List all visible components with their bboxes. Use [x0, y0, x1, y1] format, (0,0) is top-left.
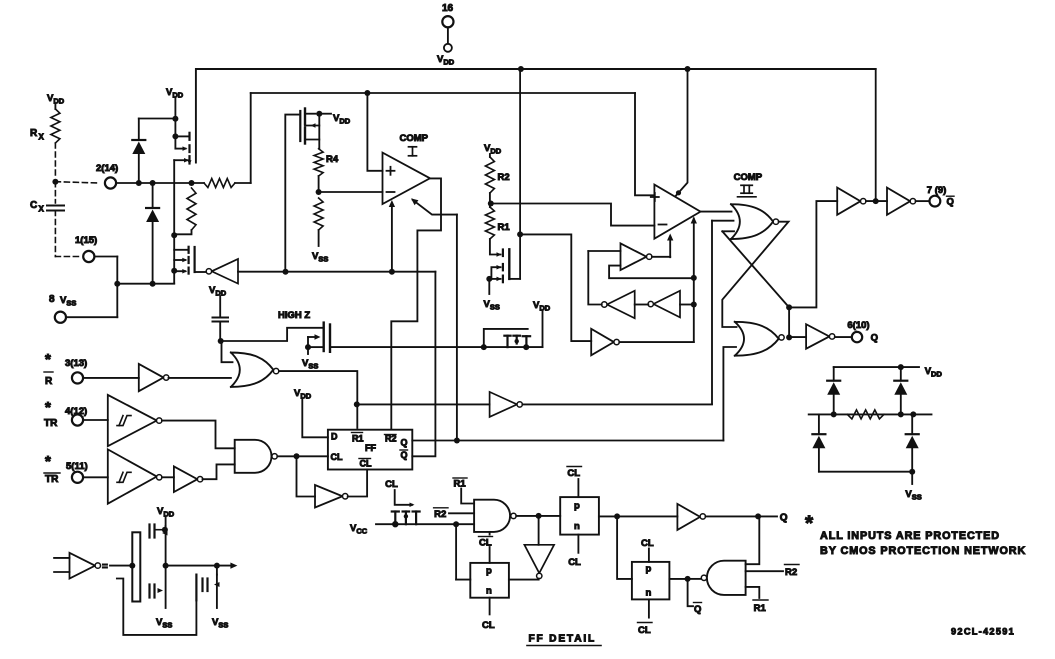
svg-text:CL: CL: [641, 538, 654, 549]
svg-text:C: C: [30, 200, 37, 211]
svg-text:5(11): 5(11): [66, 461, 88, 472]
svg-text:D: D: [331, 432, 338, 442]
svg-text:R1: R1: [352, 434, 364, 444]
svg-text:TR: TR: [45, 474, 59, 485]
svg-text:FF: FF: [365, 443, 376, 453]
svg-text:Q: Q: [401, 438, 408, 448]
svg-text:=: =: [102, 562, 108, 573]
svg-text:n: n: [574, 521, 580, 532]
svg-text:*: *: [45, 399, 51, 416]
svg-text:3(13): 3(13): [65, 358, 87, 369]
svg-text:CL: CL: [638, 625, 651, 636]
svg-text:1(15): 1(15): [75, 235, 97, 246]
svg-text:Q: Q: [780, 513, 788, 524]
svg-text:8: 8: [49, 294, 55, 305]
svg-text:6(10): 6(10): [847, 320, 869, 331]
svg-text:COMP: COMP: [734, 172, 763, 183]
svg-text:R4: R4: [326, 154, 339, 165]
svg-text:X: X: [39, 133, 45, 142]
svg-text:CL: CL: [360, 459, 372, 469]
svg-text:CL: CL: [568, 557, 581, 568]
svg-text:TR: TR: [44, 418, 58, 429]
svg-text:*: *: [45, 351, 51, 368]
svg-text:Q: Q: [401, 450, 408, 460]
svg-text:BY CMOS PROTECTION NETWORK: BY CMOS PROTECTION NETWORK: [820, 545, 1026, 557]
svg-text:R2: R2: [434, 509, 446, 520]
svg-text:*: *: [45, 453, 51, 470]
svg-text:p: p: [646, 564, 652, 575]
svg-text:CL: CL: [482, 620, 495, 631]
svg-text:CL: CL: [331, 452, 343, 462]
svg-text:COMP: COMP: [400, 133, 429, 144]
svg-text:ALL INPUTS ARE PROTECTED: ALL INPUTS ARE PROTECTED: [820, 530, 1000, 542]
svg-text:Q: Q: [947, 197, 954, 208]
svg-text:R2: R2: [498, 172, 510, 183]
svg-text:n: n: [646, 588, 652, 599]
svg-text:FF DETAIL: FF DETAIL: [529, 634, 597, 645]
svg-text:p: p: [486, 566, 492, 577]
svg-text:R1: R1: [498, 222, 511, 233]
svg-text:p: p: [574, 501, 580, 512]
svg-text:R: R: [45, 376, 53, 387]
svg-text:Q: Q: [694, 604, 701, 615]
svg-text:R2: R2: [785, 567, 797, 578]
svg-text:2(14): 2(14): [96, 163, 118, 174]
svg-text:Q: Q: [871, 333, 878, 344]
svg-text:R1: R1: [454, 479, 467, 490]
svg-text:HIGH Z: HIGH Z: [278, 310, 310, 321]
svg-text:X: X: [39, 205, 45, 214]
svg-text:92CL-42591: 92CL-42591: [951, 627, 1015, 637]
svg-text:CL: CL: [567, 468, 580, 479]
svg-text:CL: CL: [385, 479, 398, 490]
svg-text:R: R: [30, 128, 38, 139]
svg-text:16: 16: [442, 3, 454, 14]
svg-text:7 (9): 7 (9): [927, 185, 947, 196]
svg-text:n: n: [486, 586, 492, 597]
svg-text:R1: R1: [754, 603, 767, 614]
svg-text:*: *: [805, 512, 814, 535]
